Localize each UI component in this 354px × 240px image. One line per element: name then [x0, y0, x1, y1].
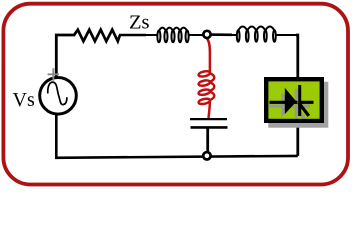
svg-text:Zs: Zs: [129, 12, 150, 34]
wire: resistor to first inductor: [119, 34, 146, 37]
svg-text:Vs: Vs: [13, 89, 35, 111]
wire: capacitor to bottom node: [206, 128, 209, 156]
inductor (red shunt coil): [199, 71, 215, 104]
voltage source Vs: [40, 68, 77, 114]
capacitor: [190, 119, 228, 127]
inductor (series, left): [145, 28, 203, 43]
node: top junction: [203, 31, 210, 38]
wire: top node to second inductor: [207, 33, 232, 36]
wire: right rail, down right side: [296, 35, 298, 156]
inductor (series, right): [231, 27, 298, 42]
wire: top-left rail from Vs up and right to resistor: [56, 35, 75, 77]
diode detector in green box: [264, 77, 328, 128]
wire: red branch from top node: [207, 39, 210, 72]
node: bottom junction: [203, 152, 210, 159]
resistor: [74, 30, 120, 42]
wire: bottom rail: [56, 115, 297, 158]
wire: red coil to capacitor: [209, 100, 210, 118]
